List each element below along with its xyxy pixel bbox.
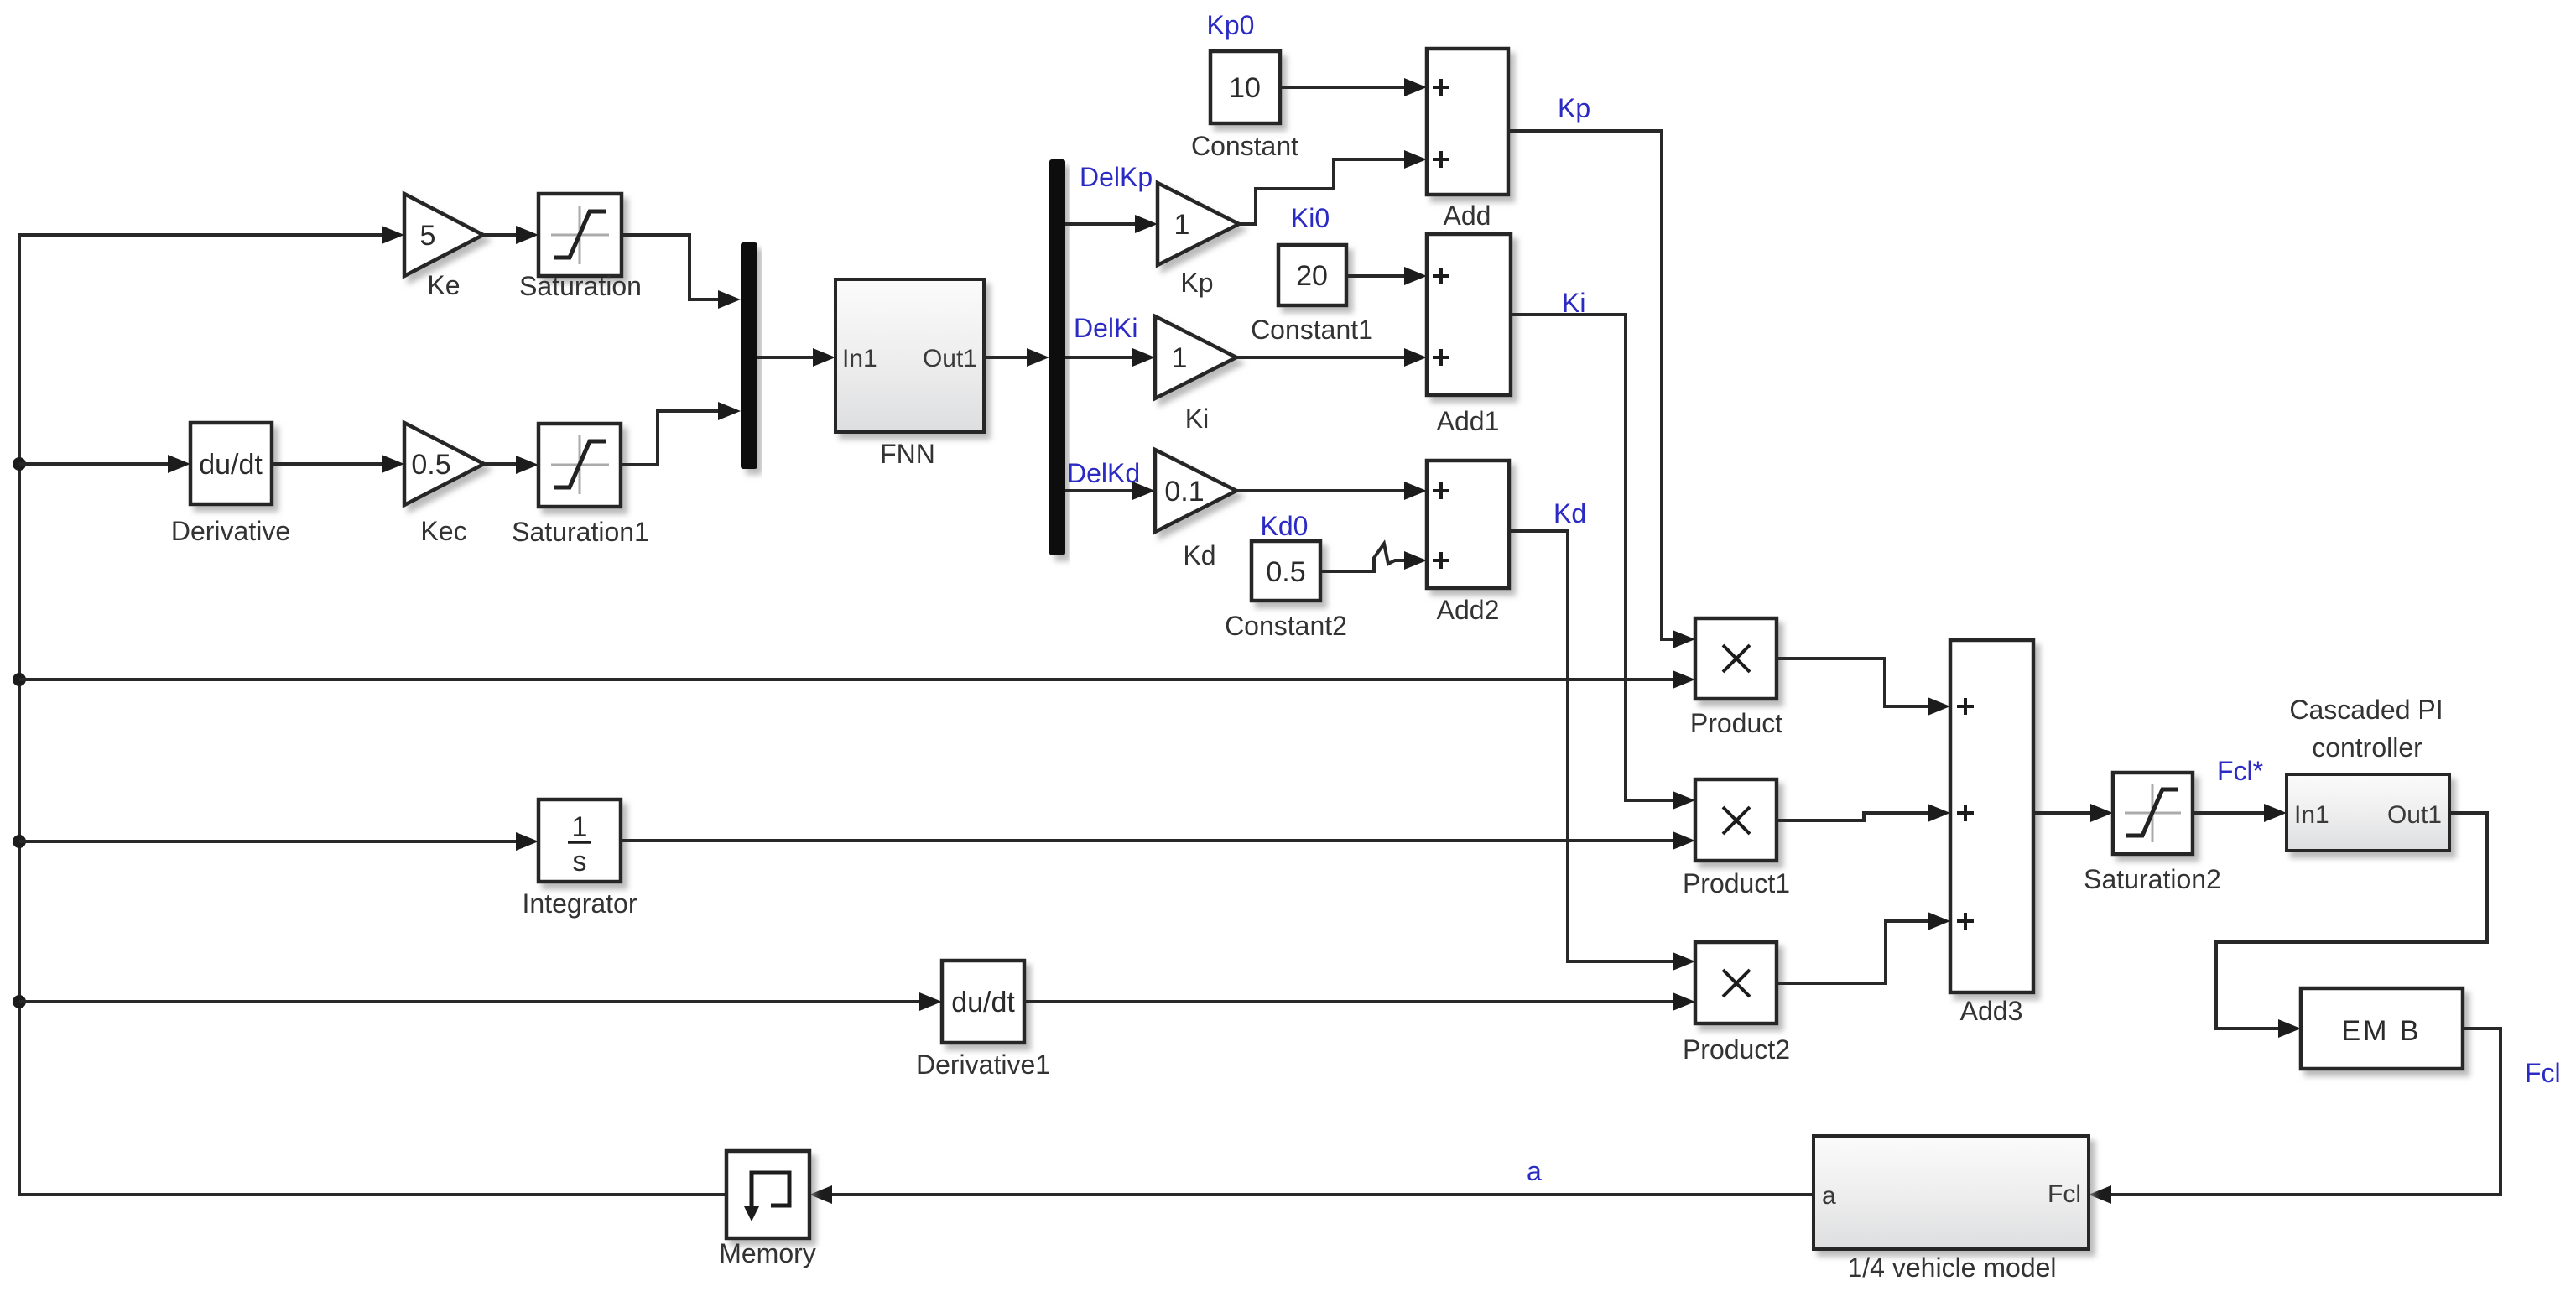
product block Product1	[1695, 779, 1777, 861]
svg-text:a: a	[1527, 1156, 1542, 1186]
sum block Add3	[1950, 640, 2033, 992]
svg-text:Fcl: Fcl	[2525, 1058, 2561, 1088]
svg-text:controller: controller	[2312, 732, 2422, 763]
derivative block Derivative1 (du/dt)	[19, 1000, 919, 1003]
svg-text:EM B: EM B	[2341, 1015, 2421, 1047]
wire: rail long feed to Product in2	[19, 678, 1673, 681]
svg-text:1/4 vehicle model: 1/4 vehicle model	[1847, 1253, 2056, 1283]
mux bar	[741, 242, 757, 469]
gain Kd (value 0.1)	[1155, 450, 1236, 532]
wire: Demux out2 to gain Ki	[1065, 356, 1132, 359]
wire: gain Kd to Add2 in1	[1236, 489, 1404, 492]
wire: Mux to FNN	[757, 356, 813, 359]
svg-text:DelKp: DelKp	[1080, 162, 1153, 192]
svg-text:a: a	[1822, 1182, 1836, 1210]
svg-text:Constant2: Constant2	[1225, 611, 1347, 641]
wire: Add1 output Ki down to Product1 in1	[1511, 315, 1673, 800]
wire: vehicle model output a to Memory	[832, 1193, 1814, 1196]
integrator block Integrator (1/s)	[19, 840, 516, 843]
svg-text:s: s	[573, 846, 587, 878]
svg-text:0.5: 0.5	[1266, 556, 1305, 588]
wire: Constant2 zigzag to Add2 in2	[1320, 544, 1404, 571]
svg-text:1: 1	[1172, 342, 1188, 374]
svg-text:DelKi: DelKi	[1074, 313, 1137, 343]
wire: arrow into gain Ke	[382, 226, 404, 244]
wire: Saturation1 to Mux bottom port	[621, 411, 718, 465]
demux bar	[1049, 159, 1065, 555]
svg-text:Derivative1: Derivative1	[916, 1049, 1050, 1080]
svg-text:Ki: Ki	[1185, 404, 1209, 434]
svg-text:In1: In1	[2294, 801, 2329, 829]
svg-text:DelKd: DelKd	[1067, 458, 1140, 488]
subsystem FNN	[835, 279, 984, 432]
product block Product	[1695, 618, 1777, 699]
subsystem Cascaded PI controller	[2287, 774, 2449, 851]
svg-text:0.1: 0.1	[1164, 476, 1204, 508]
svg-text:In1: In1	[842, 345, 877, 372]
svg-text:5: 5	[420, 220, 436, 252]
svg-text:Kd0: Kd0	[1261, 511, 1309, 541]
svg-text:Kp0: Kp0	[1207, 10, 1255, 40]
svg-text:Product: Product	[1690, 708, 1782, 738]
svg-text:0.5: 0.5	[411, 449, 450, 481]
constant block Constant2 (0.5)	[1252, 541, 1320, 601]
node: junction dot rail to Derivative1	[13, 995, 26, 1008]
svg-text:1: 1	[1174, 209, 1190, 241]
wire: Cascaded PI Out1 routed down-left to EMB	[2216, 813, 2487, 1029]
svg-text:Ke: Ke	[427, 270, 460, 300]
svg-text:Kec: Kec	[420, 516, 466, 546]
wire: Derivative1 to Product2 in2	[1024, 1000, 1673, 1003]
gain Ke (value 5)	[404, 194, 483, 276]
wire: gain Ki to Add1 in2	[1236, 356, 1404, 359]
svg-text:Kd: Kd	[1553, 498, 1586, 529]
svg-text:Product2: Product2	[1683, 1034, 1790, 1065]
wire: Constant to Add in1	[1280, 86, 1404, 89]
node: junction dot rail to Integrator	[13, 835, 26, 848]
wire: Product1 to Add3 in2	[1777, 813, 1928, 820]
node: junction dot rail to Derivative	[13, 457, 26, 471]
sum block Add	[1427, 49, 1508, 195]
svg-text:Ki0: Ki0	[1291, 203, 1330, 233]
wire: Demux out1 to gain Kp	[1065, 222, 1135, 226]
svg-text:Cascaded PI: Cascaded PI	[2289, 695, 2443, 725]
saturation block Saturation2	[2113, 773, 2193, 854]
svg-text:Add1: Add1	[1437, 406, 1500, 436]
svg-text:Kp: Kp	[1558, 93, 1590, 123]
svg-text:du/dt: du/dt	[951, 987, 1015, 1018]
wire: Kec to Saturation1	[484, 462, 516, 466]
svg-text:Saturation1: Saturation1	[512, 517, 649, 547]
wire: Product2 to Add3 in3	[1777, 921, 1928, 983]
svg-text:10: 10	[1229, 72, 1261, 104]
wire: Add output Kp down to Product in1	[1508, 131, 1673, 639]
constant block Constant1 (20)	[1278, 245, 1346, 305]
memory block Memory	[726, 1151, 809, 1238]
product block Product2	[1695, 942, 1777, 1023]
saturation block Saturation1	[539, 424, 621, 507]
wire: Saturation2 to Cascaded PI controller	[2193, 811, 2264, 815]
constant block Constant (10)	[1210, 51, 1280, 123]
wire: Derivative to gain Kec	[272, 462, 382, 466]
wire: FNN to Demux	[984, 356, 1027, 359]
svg-text:FNN: FNN	[880, 439, 935, 469]
wire: Saturation to Mux top port	[622, 235, 718, 299]
wire: Demux out3 to gain Kd	[1065, 489, 1132, 492]
node: junction dot rail to Product row	[13, 673, 26, 686]
gain Kec (value 0.5)	[404, 423, 484, 505]
wire: Integrator to Product1 in2	[621, 839, 1673, 842]
svg-text:Constant: Constant	[1191, 131, 1298, 161]
svg-text:Memory: Memory	[719, 1238, 816, 1268]
saturation block Saturation	[539, 194, 622, 276]
wire: Constant1 to Add1 in1	[1346, 274, 1404, 278]
svg-text:Saturation: Saturation	[519, 271, 642, 301]
svg-text:Integrator: Integrator	[523, 888, 637, 919]
svg-text:Kp: Kp	[1180, 268, 1213, 298]
wire: Product to Add3 in1	[1777, 659, 1928, 706]
svg-text:Constant1: Constant1	[1251, 315, 1373, 345]
block EMB	[2301, 988, 2463, 1069]
svg-text:Derivative: Derivative	[171, 516, 290, 546]
svg-text:Add2: Add2	[1437, 595, 1500, 625]
sum block Add1	[1427, 234, 1511, 395]
svg-text:Product1: Product1	[1683, 868, 1790, 898]
svg-text:Add3: Add3	[1960, 996, 2023, 1026]
wire: feedback rail from Memory output up left side to Ke row	[19, 235, 726, 1195]
svg-text:1: 1	[572, 811, 588, 843]
subsystem 1/4 vehicle model	[1814, 1136, 2089, 1249]
wire: Ke to Saturation	[483, 233, 518, 237]
wire: gain Kp staircase to Add in2	[1239, 159, 1404, 224]
gain Ki (value 1)	[1155, 316, 1236, 398]
sum block Add2	[1427, 461, 1509, 588]
svg-text:Out1: Out1	[923, 345, 977, 372]
gain Kp (value 1)	[1158, 183, 1239, 265]
svg-text:du/dt: du/dt	[199, 449, 263, 481]
svg-text:Out1: Out1	[2387, 801, 2442, 829]
svg-text:Saturation2: Saturation2	[2084, 864, 2221, 894]
svg-text:Kd: Kd	[1183, 540, 1215, 570]
svg-text:Fcl*: Fcl*	[2217, 756, 2263, 786]
wire: EMB output Fcl down to 1/4 vehicle model input	[2111, 1029, 2501, 1195]
wire: Add3 to Saturation2	[2033, 811, 2090, 815]
svg-text:20: 20	[1296, 260, 1328, 292]
svg-text:Fcl: Fcl	[2048, 1180, 2081, 1208]
wire: Add2 output Kd down to Product2 in1	[1509, 531, 1673, 961]
svg-text:Add: Add	[1444, 201, 1491, 231]
derivative block Derivative (du/dt)	[19, 462, 168, 466]
